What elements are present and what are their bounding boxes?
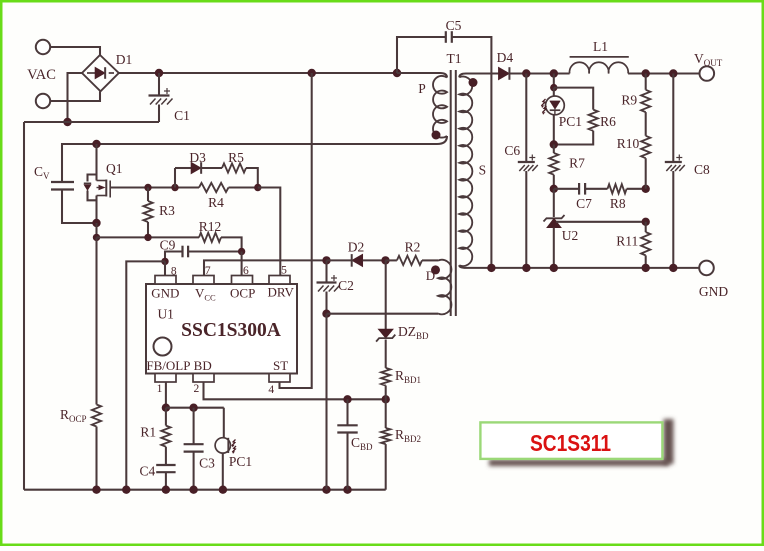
wire R5 to join node [246,168,258,188]
node R7/C7 junction [550,185,558,193]
node C_BD top [343,395,351,403]
svg-text:SSC1S300A: SSC1S300A [181,320,281,341]
svg-text:D2: D2 [348,240,365,255]
capacitor C1 (electrolytic) [158,73,160,96]
winding P primary [397,73,447,78]
node BD divider [382,395,390,403]
wire gate node to DRV pin 5 [258,188,281,276]
svg-text:T1: T1 [447,51,462,66]
node Q1 drain [92,140,100,148]
svg-text:4: 4 [268,384,274,396]
svg-text:7: 7 [205,265,211,277]
resistor R2 [397,256,422,265]
wire bridge left corner to lower-left node [68,73,83,122]
node R3 bottom [144,234,151,241]
capacitor C7 [554,188,579,190]
op-amp U1 SSC1S300A IC body [146,284,297,374]
resistor R1 [165,408,167,426]
svg-text:GND: GND [151,286,179,301]
node source/R12 rail [93,234,100,241]
wire C2 bottom to rail [325,314,327,490]
aux winding polarity dot [431,265,440,274]
badge SC1S311 [480,419,673,466]
output terminal VOUT [700,66,715,81]
svg-text:D: D [426,268,435,283]
svg-text:VAC: VAC [27,67,56,83]
capacitor C6 (electrolytic) [525,74,527,163]
node rail U2 [550,264,558,272]
svg-text:C1: C1 [174,108,190,123]
svg-text:FB/OLP: FB/OLP [146,358,190,373]
diode D3 [175,167,191,169]
svg-text:6: 6 [243,265,249,277]
svg-text:PC1: PC1 [229,454,252,469]
wire source to R12 line [95,223,97,237]
svg-text:R9: R9 [621,93,637,108]
pin 7 stub [193,276,214,285]
node R4/R5 join [254,184,261,191]
wire AC top terminal to bridge [50,47,100,55]
resistor R7 [553,145,555,154]
svg-text:8: 8 [171,266,177,278]
svg-text:PC1: PC1 [559,114,582,129]
AC input terminal top [36,40,50,54]
bridge rectifier D1 [82,55,119,91]
svg-text:DRV: DRV [267,285,294,300]
svg-text:U1: U1 [157,307,174,322]
svg-text:ST: ST [273,358,288,373]
node rail R_OCP [92,486,100,494]
svg-text:D1: D1 [116,52,133,67]
node gate / D3 branch [171,184,178,191]
pin 8 stub [155,276,176,285]
svg-text:U2: U2 [562,228,579,243]
wire gate line y=187.5 [110,186,199,188]
svg-text:R8: R8 [610,196,626,211]
pin 5 stub [269,276,290,285]
svg-text:R12: R12 [199,219,222,234]
node rail C8 [669,264,677,272]
capacitor C_BD [346,399,348,425]
wire AC bottom terminal to bridge [50,92,100,102]
node rail PC1 [219,486,227,494]
wire D3 branch up [174,168,176,188]
wire output rail [526,72,570,74]
resistor R10 [645,112,647,136]
node source sense [92,219,100,227]
capacitor Cv [51,181,74,183]
capacitor C9 [165,252,183,262]
svg-text:D3: D3 [189,150,206,165]
node C1 top [155,69,163,77]
svg-text:SC1S311: SC1S311 [530,430,611,456]
winding S secondary [459,74,498,78]
resistor R11 [645,222,647,232]
wire VCC line y=260.4 [204,260,327,275]
wire aux bottom return [327,313,439,315]
wire FB node line [166,407,224,409]
svg-text:C4: C4 [140,464,156,479]
node C6 top [522,69,530,77]
resistor R4 [199,183,229,192]
svg-text:2: 2 [194,383,200,395]
svg-text:1: 1 [157,383,163,395]
svg-text:C3: C3 [199,456,215,471]
svg-text:R7: R7 [569,156,585,171]
node FB/R1 [162,404,170,412]
svg-text:L1: L1 [593,39,608,54]
node rail C3 [189,486,197,494]
svg-text:C9: C9 [160,238,176,253]
primary polarity dot [432,131,441,140]
wire R12 rail y=237.4 [97,236,200,238]
diode D2 [327,259,352,261]
node C9/VCC pin junction [238,248,245,255]
transformer core [450,70,452,316]
node rail C4 [162,486,170,494]
photocoupler PC1 transistor side [223,408,225,438]
svg-text:Q1: Q1 [106,161,123,176]
diode D4 [498,67,509,80]
resistor R8 [608,184,627,193]
resistor R3 [143,201,152,222]
node rail R11 [642,264,650,272]
wire ST pin 4 to HV rail [280,73,312,388]
inductor L1 [570,56,629,58]
svg-text:OCP: OCP [230,286,255,301]
wire BD pin 2 to bias network [204,382,386,399]
wire drain rail y=144 (Cv top to primary bottom) [62,144,437,182]
svg-text:R10: R10 [617,136,640,151]
wire main HV rail y=73 [119,72,397,74]
wire left vertical rail [23,122,25,490]
resistor R_BD1 [381,368,390,386]
svg-text:P: P [418,81,426,96]
capacitor C3 [193,408,195,445]
winding D auxiliary [438,260,451,314]
node rail C5 [487,264,495,272]
node R8/R10 junction [642,185,650,193]
svg-text:C2: C2 [338,278,354,293]
svg-text:D4: D4 [497,50,514,65]
svg-text:R2: R2 [405,240,421,255]
wire bottom primary ground rail [24,489,386,491]
node R11 top [642,218,650,226]
svg-text:R11: R11 [616,234,638,249]
pin 1 stub [155,374,176,383]
AC input terminal bottom [36,94,50,108]
svg-text:C8: C8 [694,162,710,177]
node C3 top [189,404,197,412]
wire U2 to R11 top [556,221,646,223]
wire GND pin branch to bottom rail [126,261,165,489]
pin 4 stub [269,374,290,383]
resistor R_OCP [95,237,97,404]
shunt regulator U2 [553,189,555,217]
wire pin6 lead [241,252,243,276]
node rail C6 [522,264,530,272]
zener DZ_BD [385,260,387,329]
node C2 top / D2 cathode [322,256,330,264]
output terminal GND [699,261,714,276]
svg-text:C5: C5 [446,18,462,33]
node rail C9gnd [122,486,130,494]
wire Cv bottom to source node [62,190,97,224]
capacitor C8 (electrolytic) [672,74,674,163]
svg-text:C7: C7 [576,196,592,211]
node gate / R3 top [144,184,151,191]
node junction AC return [63,118,71,126]
svg-text:C6: C6 [504,143,520,158]
node R9 top [642,69,650,77]
secondary polarity dot [469,78,478,87]
resistor R6 [554,88,593,110]
pin1 indicator circle [154,338,172,356]
node C2 bottom / aux return [322,310,330,318]
capacitor C4 [165,447,167,465]
pin 6 stub [232,276,253,285]
capacitor C5 [397,37,446,73]
node rail CBD [343,486,351,494]
node R7 top [550,140,558,148]
photocoupler PC1 LED side [553,74,555,88]
svg-text:5: 5 [281,265,287,277]
svg-text:R1: R1 [140,425,156,440]
node primary top / C5 [393,69,401,77]
transistor Q1 MOSFET [95,144,97,181]
svg-text:R3: R3 [159,203,175,218]
wire lower-left horizontal rail y=122 [24,121,159,123]
node GND pin / C9 ground [161,258,168,265]
node ST rail top [308,69,316,77]
resistor R9 [645,74,647,90]
node rail C2 [322,486,330,494]
svg-text:GND: GND [699,284,728,299]
node PC1/R6 top [550,69,558,77]
pin 2 stub [193,374,214,383]
node D2/R2/DZ [381,256,389,264]
svg-text:S: S [479,163,487,178]
wire pin8 lead [164,261,166,275]
resistor R5 [222,163,246,172]
node C8 top [669,69,677,77]
wire R12 to pin6 corner [221,237,242,251]
capacitor C2 (electrolytic) [325,260,327,282]
wire FB pin 1 lead [165,382,167,408]
svg-text:R4: R4 [208,195,224,210]
svg-text:R6: R6 [600,114,616,129]
svg-text:BD: BD [194,358,212,373]
svg-text:R5: R5 [228,150,244,165]
resistor R12 [199,233,221,242]
resistor R_BD2 [385,399,387,428]
wire secondary ground rail [466,267,699,269]
